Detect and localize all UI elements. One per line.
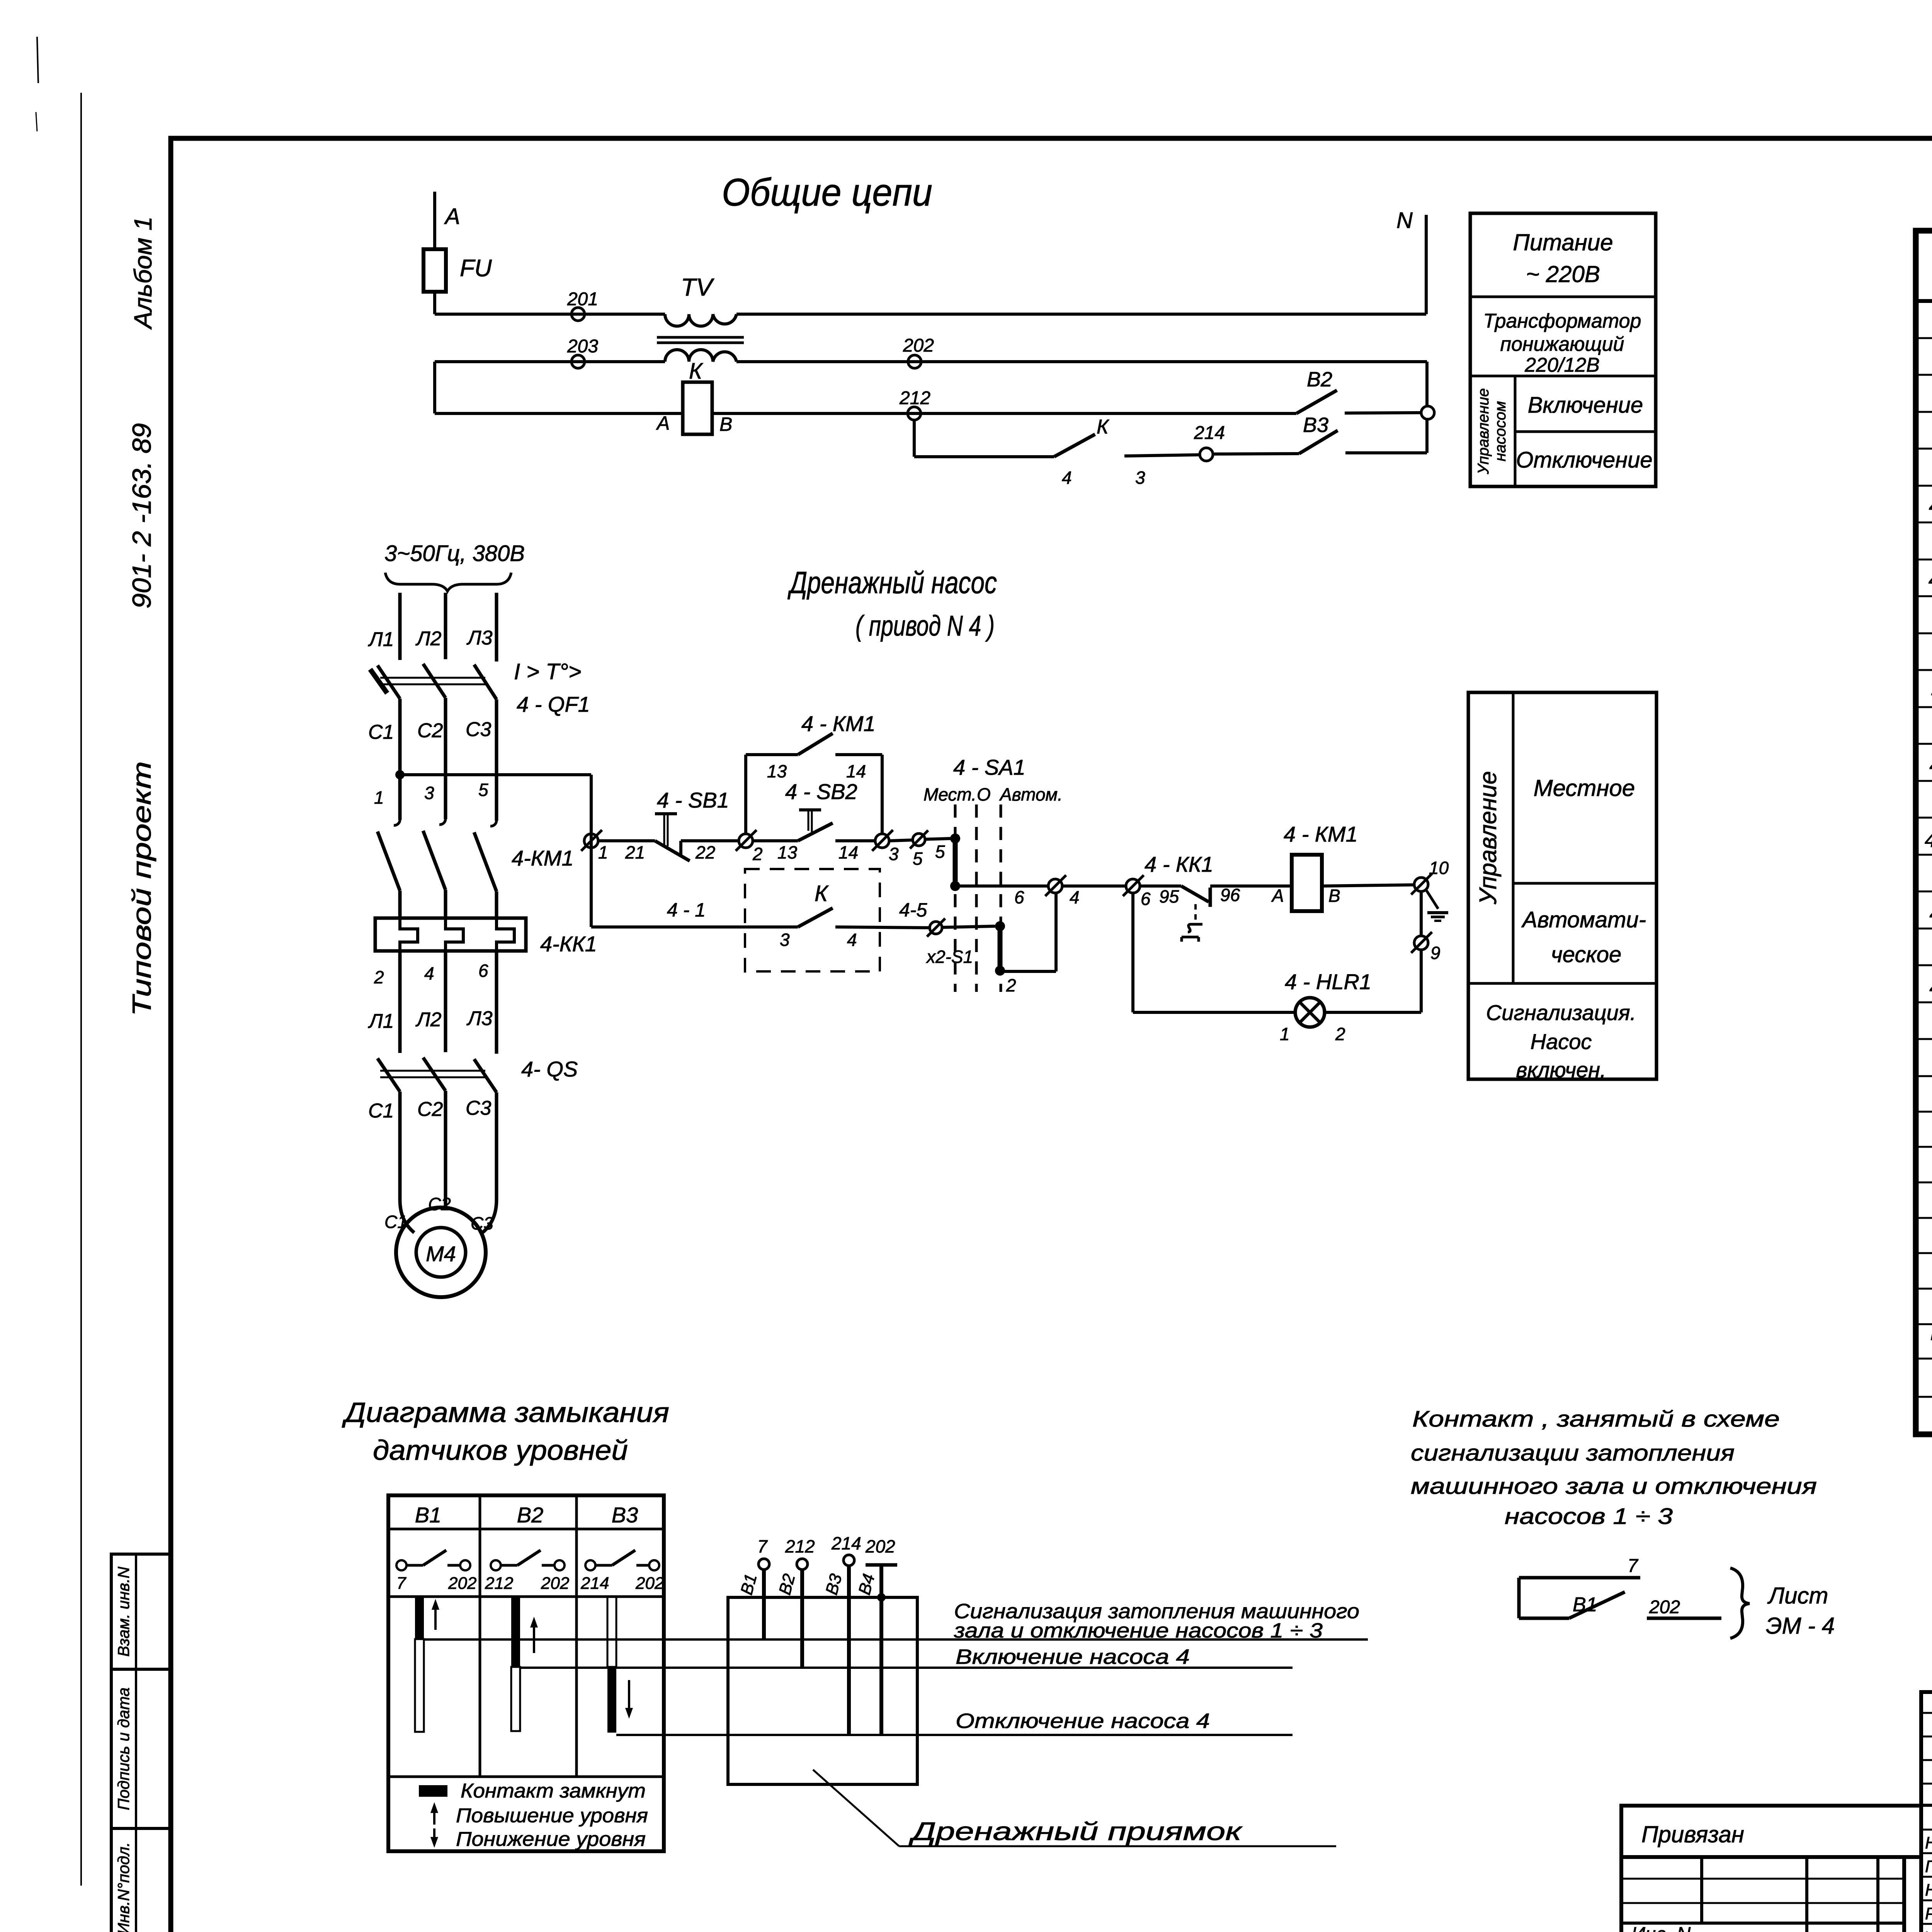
svg-text:Л3: Л3	[466, 627, 493, 649]
svg-text:96: 96	[1220, 885, 1240, 905]
phase segments to KK1	[398, 891, 402, 918]
svg-text:1: 1	[1280, 1024, 1290, 1044]
motor leads	[400, 1092, 414, 1233]
svg-text:сигнализации затопления: сигнализации затопления	[1411, 1440, 1735, 1466]
svg-text:2: 2	[1335, 1024, 1345, 1044]
wire to SB1	[598, 839, 655, 842]
svg-text:4: 4	[1070, 887, 1080, 907]
svg-text:В: В	[719, 413, 732, 435]
node 202	[908, 355, 921, 368]
svg-text:В4: В4	[855, 1572, 878, 1597]
svg-text:4 - КМ1: 4 - КМ1	[801, 711, 876, 736]
fuse FU	[423, 249, 446, 292]
wire 6 from SA1	[960, 884, 1048, 888]
svg-text:Лист: Лист	[1767, 1583, 1828, 1609]
terminal 4-5	[930, 922, 942, 934]
svg-text:Л1: Л1	[368, 628, 394, 651]
svg-text:4-QF1: 4-QF1	[1929, 493, 1932, 518]
svg-text:В1: В1	[1573, 1594, 1597, 1616]
svg-text:Л3: Л3	[466, 1007, 493, 1030]
svg-text:7: 7	[757, 1536, 768, 1556]
svg-text:4 - НLR1: 4 - НLR1	[1285, 969, 1371, 994]
svg-text:А: А	[656, 412, 670, 434]
wire to SB2	[753, 839, 798, 842]
wire control tap	[400, 773, 591, 776]
transformer TV secondary	[665, 350, 736, 362]
svg-text:Местное: Местное	[1534, 775, 1635, 801]
wire coil to B2	[712, 412, 1296, 415]
svg-text:машинного зала и отключения: машинного зала и отключения	[1411, 1474, 1817, 1499]
svg-text:6: 6	[1014, 887, 1024, 907]
transformer TV primary	[665, 314, 736, 326]
TITLE BLOCK	[1621, 1692, 1932, 1932]
svg-text:202: 202	[865, 1536, 895, 1556]
svg-text:Н.контр.: Н.контр.	[1925, 1881, 1932, 1900]
control legend box	[1468, 692, 1656, 1079]
svg-text:насосов 1 ÷ 3: насосов 1 ÷ 3	[1505, 1504, 1673, 1529]
wire auto return	[1005, 970, 1056, 973]
svg-text:14: 14	[846, 761, 866, 781]
svg-text:3: 3	[424, 783, 434, 803]
LEGEND BOXES	[1468, 213, 1656, 1082]
svg-text:В2: В2	[517, 1503, 544, 1527]
signal line A	[424, 1638, 1368, 1641]
terminal 2	[739, 834, 753, 848]
svg-text:Управление: Управление	[1475, 771, 1502, 905]
svg-text:В1: В1	[737, 1572, 760, 1597]
wire 12V line	[435, 360, 665, 363]
legend level rise	[433, 1808, 435, 1825]
wire to KK1 contact	[1140, 884, 1181, 888]
svg-text:С3: С3	[471, 1213, 493, 1233]
svg-text:~ 220В: ~ 220В	[1526, 261, 1600, 287]
svg-text:Трансформатор: Трансформатор	[1483, 310, 1641, 332]
svg-text:202: 202	[903, 335, 934, 356]
svg-text:Контакт , занятый в схеме: Контакт , занятый в схеме	[1412, 1406, 1780, 1432]
svg-text:4 - SА1: 4 - SА1	[953, 755, 1026, 779]
svg-text:21: 21	[625, 842, 645, 862]
svg-text:4 - QF1: 4 - QF1	[517, 692, 590, 716]
sensor B3 electrode	[844, 1555, 854, 1566]
CONTACT NOTE	[1411, 1406, 1835, 1639]
svg-text:Диаграмма замыкания: Диаграмма замыкания	[342, 1397, 669, 1428]
svg-text:Нач.отд.: Нач.отд.	[1925, 1833, 1932, 1852]
svg-text:4-КМ1: 4-КМ1	[512, 846, 574, 870]
svg-text:2: 2	[1006, 975, 1016, 995]
terminal 9	[1414, 936, 1428, 950]
svg-text:В1 ÷ В4: В1 ÷ В4	[1930, 1325, 1932, 1344]
node 203	[571, 355, 585, 368]
power legend box	[1470, 213, 1656, 486]
terminal 3	[875, 834, 889, 848]
svg-text:4-SB2: 4-SB2	[1929, 975, 1932, 1000]
svg-text:С1: С1	[368, 1100, 394, 1122]
svg-text:214: 214	[1194, 423, 1225, 443]
svg-text:Инженер: Инженер	[1923, 1928, 1932, 1932]
svg-text:Включение: Включение	[1528, 393, 1643, 418]
svg-text:Отключение насоса 4: Отключение насоса 4	[956, 1709, 1210, 1733]
svg-text:Отключение: Отключение	[1516, 447, 1652, 473]
svg-text:13: 13	[777, 842, 798, 862]
wire SB1 to terminal 2	[681, 839, 739, 842]
svg-text:Автомати-: Автомати-	[1521, 907, 1646, 932]
svg-text:С3: С3	[466, 1097, 492, 1119]
svg-text:Л2: Л2	[415, 628, 442, 650]
legend closed contact	[419, 1785, 447, 1797]
terminal 4	[1048, 879, 1062, 893]
element table outer border	[1916, 231, 1932, 1434]
left attribute table	[111, 1554, 171, 1932]
breaker latch flag	[370, 669, 387, 693]
svg-text:датчиков уровней: датчиков уровней	[373, 1435, 628, 1466]
svg-text:202: 202	[1649, 1597, 1680, 1617]
transformer TV core	[657, 336, 744, 339]
brace	[385, 573, 511, 591]
control tap junction	[395, 770, 405, 779]
terminal 1	[584, 834, 598, 848]
svg-text:5: 5	[913, 849, 923, 869]
svg-text:С2: С2	[428, 1194, 451, 1214]
svg-text:Мест.: Мест.	[923, 784, 976, 804]
switch symbol B2	[491, 1560, 501, 1570]
svg-text:FU: FU	[460, 255, 492, 282]
svg-text:( привод N 4 ): ( привод N 4 )	[855, 610, 995, 642]
sensor B2 electrode	[797, 1559, 808, 1570]
svg-text:В2: В2	[775, 1572, 799, 1597]
wire left link	[433, 362, 436, 413]
phase A lead	[433, 192, 436, 249]
svg-text:203: 203	[567, 336, 598, 357]
svg-text:К: К	[689, 359, 703, 384]
svg-text:А: А	[444, 204, 460, 229]
phase line L2 top	[444, 593, 447, 659]
svg-text:5: 5	[935, 842, 945, 862]
wire to terminal 9	[1420, 891, 1423, 936]
svg-text:С1: С1	[368, 721, 394, 743]
svg-text:Автом.: Автом.	[999, 784, 1063, 804]
sensor bar B2	[511, 1597, 520, 1667]
breaker 4-QF1	[378, 665, 400, 699]
phase line L1 top	[398, 593, 402, 660]
signal line C	[616, 1734, 1293, 1736]
svg-text:В3: В3	[1303, 413, 1328, 437]
ELEMENT LIST TABLE	[1916, 176, 1932, 1434]
contact B3	[1213, 454, 1299, 454]
sheet outer edge line	[80, 93, 82, 1886]
svg-text:Контакт замкнут: Контакт замкнут	[461, 1780, 646, 1802]
svg-text:4 - SВ2: 4 - SВ2	[785, 779, 857, 804]
svg-text:95: 95	[1159, 886, 1179, 906]
svg-text:201: 201	[567, 289, 598, 310]
svg-text:Инв.N°подл.: Инв.N°подл.	[114, 1842, 133, 1932]
svg-text:1: 1	[374, 787, 384, 808]
sensor bar B1	[415, 1597, 424, 1639]
svg-text:13: 13	[767, 761, 787, 781]
svg-text:202: 202	[541, 1574, 569, 1593]
svg-text:5: 5	[478, 780, 488, 800]
svg-text:А: А	[1271, 886, 1284, 906]
svg-text:Общие цепи: Общие цепи	[722, 171, 932, 214]
svg-text:4-SB1: 4-SB1	[1929, 901, 1932, 926]
svg-text:6: 6	[478, 961, 488, 981]
phase segments to QS	[398, 951, 402, 1053]
svg-text:22: 22	[695, 842, 715, 862]
svg-text:4: 4	[847, 930, 857, 950]
svg-text:Инв. N: Инв. N	[1631, 1923, 1691, 1932]
svg-text:Насос: Насос	[1531, 1029, 1592, 1054]
svg-text:4-КК1: 4-КК1	[540, 932, 597, 956]
signature table	[1921, 1692, 1932, 1932]
contact K in box	[798, 908, 833, 927]
wire 220V line A	[435, 313, 665, 316]
terminal 10	[1414, 878, 1428, 891]
svg-text:О: О	[977, 784, 991, 804]
relay K dashed box	[745, 869, 880, 971]
svg-text:К: К	[1097, 416, 1110, 438]
wire up to node	[1425, 419, 1429, 453]
node 201	[571, 308, 585, 321]
svg-text:Управление: Управление	[1475, 388, 1492, 474]
svg-text:Повышение уровня: Повышение уровня	[456, 1804, 648, 1827]
svg-text:насосом: насосом	[1492, 401, 1509, 461]
diagram table	[388, 1495, 664, 1851]
sensor B4 electrode common	[866, 1563, 897, 1567]
svg-text:212: 212	[899, 388, 930, 408]
svg-text:14: 14	[838, 842, 858, 862]
wire coil to terminal 10	[1322, 885, 1414, 886]
svg-text:В: В	[1328, 886, 1340, 906]
svg-text:I > Т°>: I > Т°>	[514, 659, 582, 684]
svg-text:10: 10	[1429, 858, 1449, 878]
brace	[1730, 1568, 1750, 1638]
svg-text:3~50Гц, 380В: 3~50Гц, 380В	[384, 541, 525, 566]
svg-text:4- QS: 4- QS	[521, 1057, 578, 1081]
svg-text:С2: С2	[417, 1098, 443, 1121]
svg-text:Включение насоса 4: Включение насоса 4	[956, 1645, 1190, 1668]
svg-text:901- 2 -163. 89: 901- 2 -163. 89	[127, 423, 156, 609]
wire to SA1 auto	[942, 926, 995, 927]
wire fuse to bus	[433, 292, 436, 314]
svg-text:понижающий: понижающий	[1500, 333, 1624, 355]
sensor bar B3	[607, 1597, 616, 1667]
wire to terminal 6	[1062, 884, 1126, 888]
svg-text:9: 9	[1430, 943, 1440, 963]
svg-text:220/12В: 220/12В	[1524, 354, 1600, 376]
switch 4-QS	[378, 1058, 400, 1092]
svg-text:4 - 1: 4 - 1	[667, 899, 706, 921]
svg-text:Л1: Л1	[368, 1010, 394, 1032]
ground	[1427, 891, 1438, 909]
breaker linkage bar	[380, 677, 485, 679]
svg-text:Типовой проект: Типовой проект	[127, 761, 156, 1016]
svg-text:4 - КМ1: 4 - КМ1	[1284, 822, 1358, 846]
MOTOR POWER CIRCUIT	[368, 541, 997, 1297]
svg-text:4-HLR1: 4-HLR1	[1925, 828, 1932, 852]
drain pit box	[728, 1597, 917, 1784]
svg-text:1: 1	[598, 842, 608, 862]
terminal 5	[913, 833, 925, 846]
wire relay line	[435, 412, 683, 415]
contact B1 example symbol	[1519, 1576, 1640, 1580]
node 212	[908, 407, 921, 420]
svg-text:С3: С3	[466, 718, 492, 741]
svg-text:4: 4	[424, 963, 434, 983]
SA1 auto contact bar	[995, 921, 1005, 931]
wire lamp right leg	[1420, 950, 1423, 1012]
svg-text:Альбом 1: Альбом 1	[129, 216, 157, 330]
SA1 manual contact bar	[950, 833, 960, 844]
binding table Привязан	[1621, 1806, 1921, 1857]
svg-text:Рук. гр.: Рук. гр.	[1925, 1904, 1932, 1923]
top-left scan marks	[37, 37, 38, 83]
switch symbol B1	[396, 1560, 406, 1570]
switch symbol B3	[585, 1560, 595, 1570]
row lines	[1916, 338, 1932, 1397]
svg-text:ческое: ческое	[1551, 942, 1622, 967]
svg-text:М4: М4	[426, 1242, 456, 1266]
svg-text:В3: В3	[612, 1503, 638, 1527]
svg-text:Подпись и дата: Подпись и дата	[114, 1687, 133, 1810]
COMMON CIRCUITS SCHEMATIC	[423, 171, 1434, 488]
svg-text:х2-S1: х2-S1	[926, 947, 973, 967]
wire SB2 to terminal 3	[835, 839, 875, 842]
terminal 6	[1126, 879, 1140, 893]
svg-text:Взам. инв.N: Взам. инв.N	[114, 1566, 133, 1657]
svg-text:2: 2	[374, 967, 384, 987]
motor М4	[396, 1207, 486, 1297]
CONTROL CIRCUIT	[581, 711, 1449, 1044]
svg-text:3: 3	[1135, 468, 1145, 488]
header bottom line	[1916, 299, 1932, 303]
legend level fall	[433, 1828, 435, 1842]
wire lamp left leg	[1131, 893, 1134, 1012]
contactor 4-КМ1 main contacts	[394, 820, 400, 825]
svg-text:включен.: включен.	[1516, 1058, 1606, 1082]
svg-text:Дренажный насос: Дренажный насос	[787, 565, 997, 600]
phase line L3 top	[495, 593, 498, 662]
svg-text:В3: В3	[822, 1571, 845, 1597]
svg-text:4: 4	[1062, 468, 1072, 488]
svg-text:3: 3	[889, 844, 899, 864]
svg-text:Питание: Питание	[1513, 230, 1613, 255]
junction node right	[1421, 406, 1434, 419]
svg-text:Гл. спец.: Гл. спец.	[1925, 1857, 1932, 1876]
svg-text:ТV: ТV	[681, 273, 714, 301]
svg-text:Привязан: Привязан	[1641, 1821, 1744, 1847]
svg-text:4-КМ1: 4-КМ1	[1929, 567, 1932, 592]
svg-text:С2: С2	[417, 719, 443, 742]
svg-text:зала и отключение насосов 1: зала и отключение насосов 1 ÷ 3	[954, 1619, 1323, 1642]
phase mid segments	[398, 699, 402, 820]
svg-text:Л2: Л2	[415, 1009, 442, 1031]
svg-text:С1: С1	[384, 1212, 407, 1232]
svg-text:В1: В1	[415, 1503, 442, 1527]
svg-text:N: N	[1396, 208, 1413, 233]
LEVEL SENSOR DIAGRAM	[342, 1397, 1368, 1851]
svg-text:212: 212	[485, 1574, 513, 1593]
svg-text:ЭМ - 4: ЭМ - 4	[1766, 1613, 1835, 1639]
svg-text:214: 214	[831, 1533, 861, 1553]
svg-text:4-SA1: 4-SA1	[1929, 752, 1932, 777]
svg-text:214: 214	[580, 1574, 609, 1593]
svg-text:4 - SВ1: 4 - SВ1	[657, 788, 729, 812]
svg-text:2: 2	[752, 844, 763, 864]
svg-text:Дренажный приямок: Дренажный приямок	[908, 1817, 1243, 1845]
svg-text:6: 6	[1141, 889, 1151, 909]
thermal relay 4-КК1	[375, 918, 526, 951]
signal line B	[520, 1667, 1293, 1669]
wire to SA1	[925, 838, 951, 839]
wire 4-1	[591, 925, 798, 929]
wire to terminal 5	[889, 840, 913, 841]
svg-text:212: 212	[785, 1536, 815, 1556]
svg-text:202: 202	[635, 1574, 664, 1593]
svg-text:К: К	[815, 881, 829, 906]
svg-text:Понижение уровня: Понижение уровня	[456, 1828, 646, 1850]
svg-text:4 - КК1: 4 - КК1	[1145, 852, 1213, 876]
svg-text:7: 7	[396, 1574, 406, 1593]
svg-text:Сигнализация.: Сигнализация.	[1486, 1000, 1636, 1025]
sensor B1 electrode	[759, 1559, 769, 1570]
svg-text:3: 3	[780, 930, 790, 950]
neutral N lead	[1425, 215, 1428, 314]
wire branch down from 212	[913, 420, 916, 457]
node 214	[1200, 448, 1213, 461]
svg-text:В2: В2	[1307, 368, 1332, 391]
svg-text:4-5: 4-5	[899, 899, 927, 921]
drain pit label	[813, 1770, 899, 1846]
svg-text:202: 202	[448, 1574, 476, 1593]
svg-text:7: 7	[1628, 1556, 1639, 1576]
